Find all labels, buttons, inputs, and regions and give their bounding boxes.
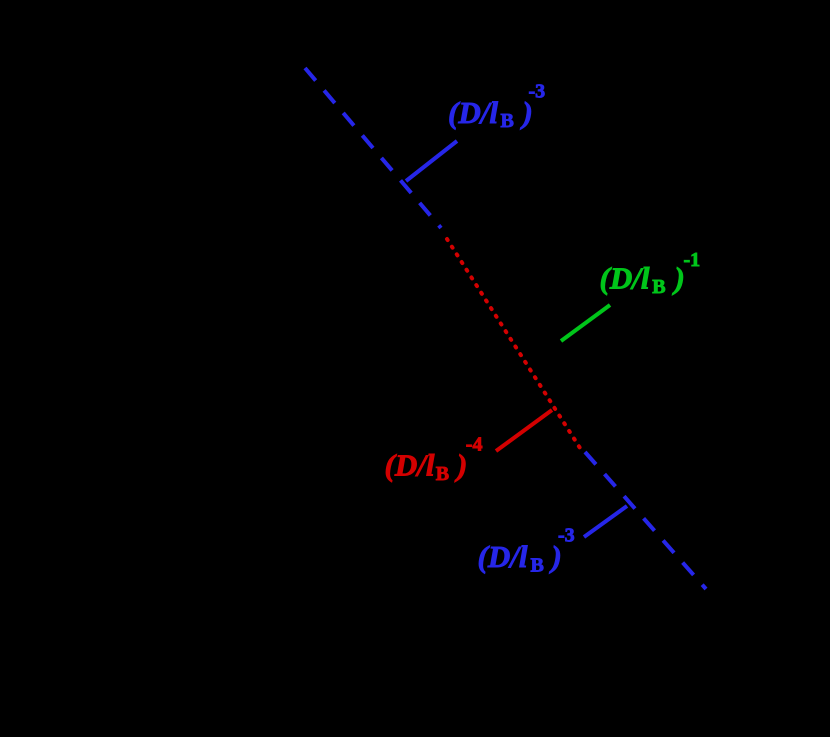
svg-text:(D/l: (D/l	[600, 261, 650, 296]
svg-text:B: B	[501, 110, 514, 132]
blue annotation pointer, upper	[406, 141, 457, 181]
label (D/lB)^-1 green	[600, 249, 701, 298]
svg-text:B: B	[531, 555, 544, 577]
svg-text:(D/l: (D/l	[478, 539, 528, 574]
svg-text:-4: -4	[466, 434, 483, 456]
blue dashed asymptote line, lower segment	[585, 452, 706, 589]
svg-text:-3: -3	[529, 81, 546, 103]
blue dashed asymptote line, upper segment	[305, 68, 441, 228]
green annotation pointer	[561, 305, 610, 341]
blue annotation pointer, lower	[584, 506, 627, 537]
red dotted crossover line	[447, 239, 580, 448]
svg-text:B: B	[652, 276, 665, 298]
svg-text:-3: -3	[558, 525, 575, 547]
svg-text:-1: -1	[684, 249, 701, 271]
label (D/lB)^-3 lower blue	[478, 525, 575, 577]
svg-text:B: B	[436, 463, 449, 485]
svg-text:(D/l: (D/l	[385, 448, 435, 483]
label (D/lB)^-4 red	[385, 434, 483, 486]
svg-text:(D/l: (D/l	[448, 95, 498, 130]
label (D/lB)^-3 upper blue	[448, 81, 545, 133]
red annotation pointer	[496, 410, 552, 451]
